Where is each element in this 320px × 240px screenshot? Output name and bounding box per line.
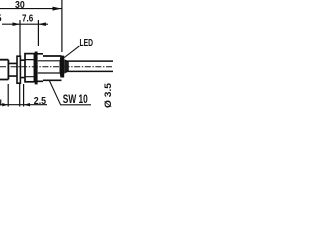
- dimension line 7.6: [2, 23, 48, 25]
- bottom dimension line 2.5: [0, 104, 47, 106]
- barrel step: [37, 54, 43, 82]
- dimension line 30: [0, 8, 62, 10]
- centerline dash-dot: [0, 66, 113, 68]
- LED leader line: [63, 46, 79, 59]
- svg-text:7.6: 7.6: [22, 12, 33, 24]
- SW 10 leader line: [49, 81, 60, 105]
- bore line top: [38, 60, 61, 62]
- small section: [20, 60, 24, 77]
- hex nut SW10: [25, 54, 34, 82]
- svg-text:Ø 3.5: Ø 3.5: [103, 82, 113, 108]
- neck: [8, 63, 17, 76]
- arrowhead 30 right: [53, 7, 62, 11]
- body tube left: [0, 60, 8, 80]
- svg-text:LED: LED: [80, 37, 94, 49]
- SW 10 underline: [60, 104, 91, 106]
- arrowhead 7.6 right pointing left: [38, 22, 46, 26]
- left edge tick: [0, 100, 2, 106]
- extension line 7.6 right: [37, 20, 39, 46]
- svg-text:2.5: 2.5: [34, 96, 47, 107]
- svg-text:30: 30: [15, 0, 25, 11]
- strain relief cone hatch: [64, 59, 69, 74]
- collar: [17, 56, 20, 83]
- extension line x24.2 bottom: [23, 84, 25, 107]
- extension line right of 30: [61, 0, 63, 52]
- cable bottom line: [65, 70, 113, 72]
- arrowhead 7.6 left pointing right: [13, 22, 21, 26]
- svg-text:SW 10: SW 10: [63, 94, 88, 106]
- arrow pointing left at x24.2: [24, 103, 30, 106]
- extension line 7.6 left: [19, 20, 21, 56]
- extension line x8 bottom: [7, 84, 9, 107]
- extension line x19.9 bottom: [19, 84, 21, 107]
- rear wall slab: [60, 56, 65, 78]
- arrow pointing right at x8: [2, 103, 8, 106]
- svg-text:5: 5: [0, 13, 2, 24]
- hex nut flat lines: [25, 60, 34, 77]
- washer: [35, 52, 38, 85]
- rear barrel: [43, 56, 62, 80]
- cable top line: [65, 60, 113, 62]
- bore line bottom: [38, 72, 61, 74]
